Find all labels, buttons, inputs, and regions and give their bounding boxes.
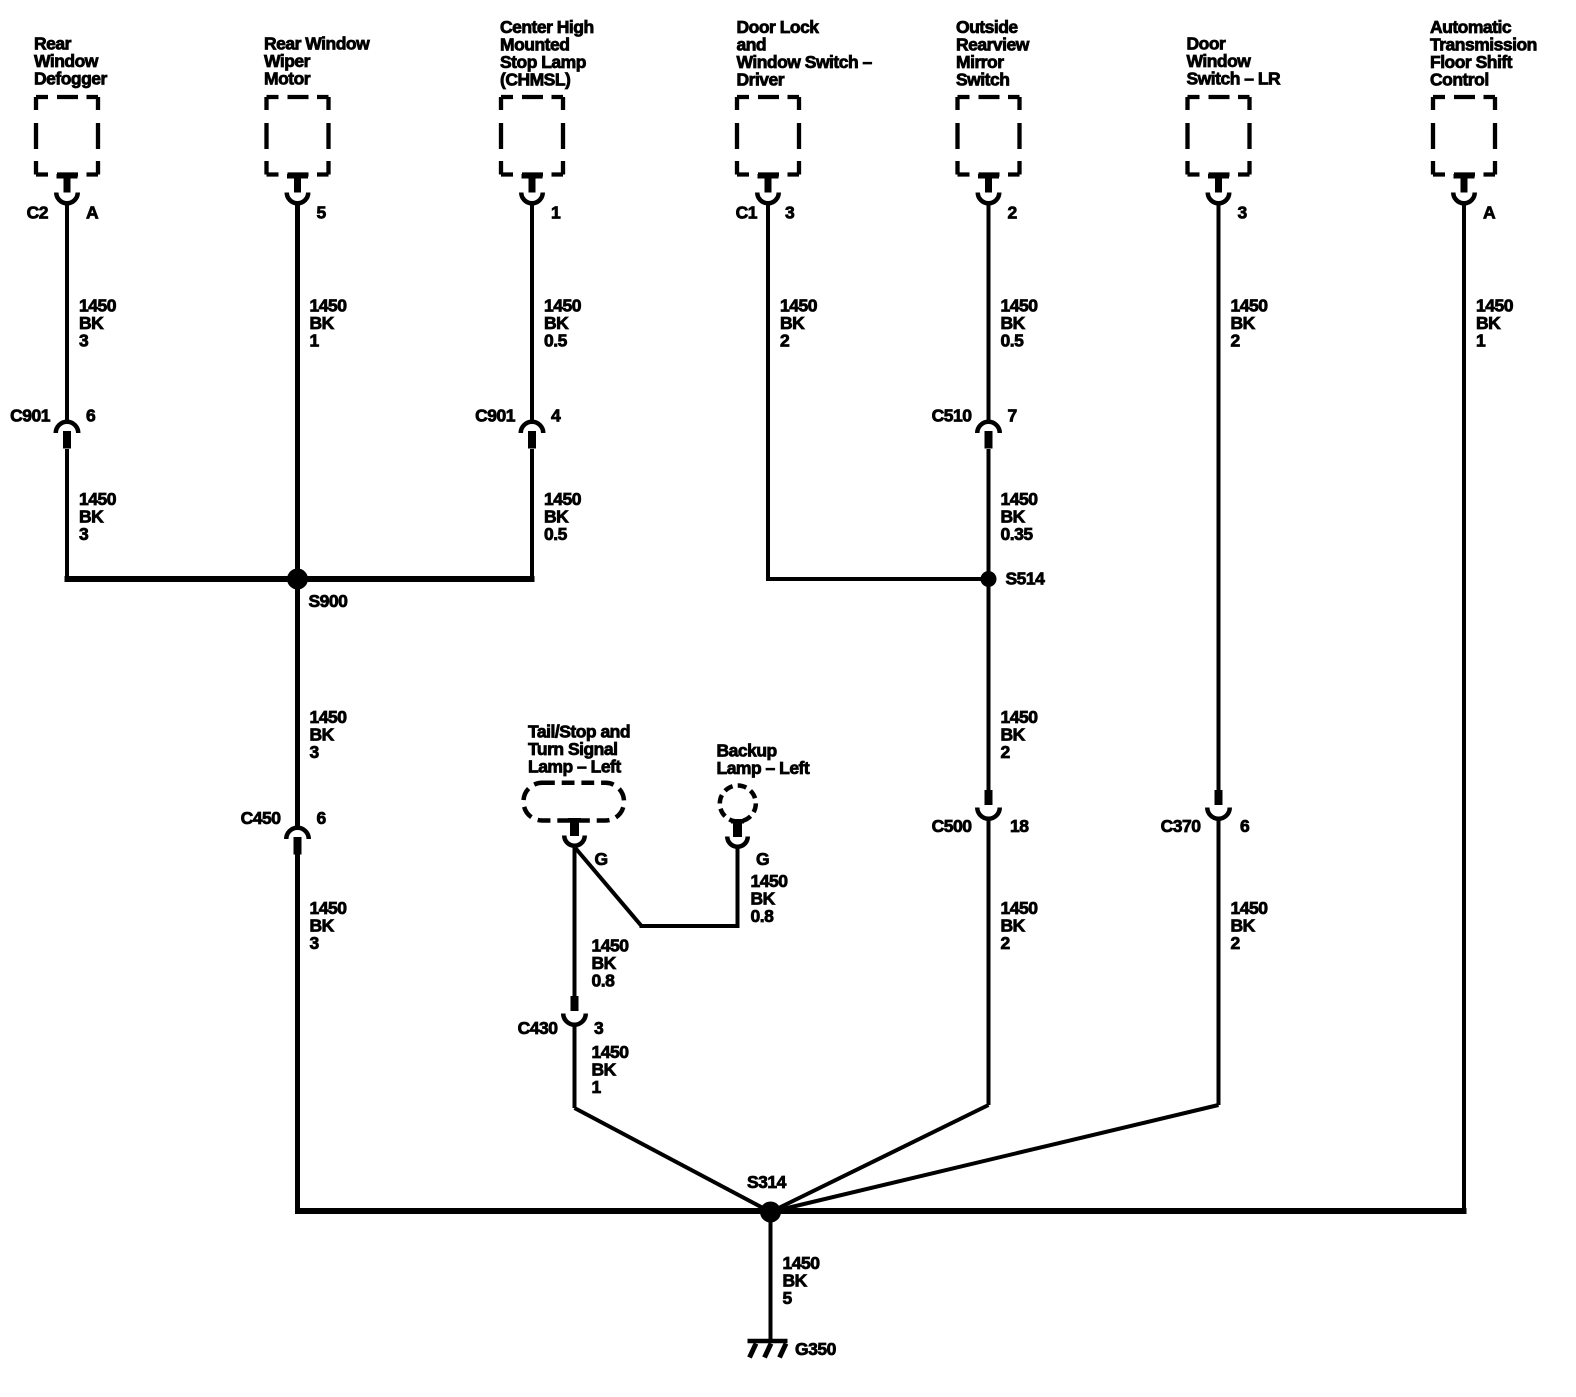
- svg-text:2: 2: [1231, 933, 1241, 953]
- svg-text:18: 18: [1010, 816, 1029, 836]
- svg-text:S314: S314: [747, 1172, 787, 1192]
- svg-text:Defogger: Defogger: [34, 69, 108, 89]
- svg-text:Switch – LR: Switch – LR: [1187, 69, 1282, 89]
- svg-text:1: 1: [310, 331, 320, 351]
- svg-text:6: 6: [86, 406, 96, 426]
- svg-text:2: 2: [1001, 742, 1011, 762]
- svg-text:C901: C901: [10, 406, 51, 426]
- svg-text:C2: C2: [27, 203, 49, 223]
- svg-text:S900: S900: [309, 591, 349, 611]
- svg-text:(CHMSL): (CHMSL): [500, 70, 570, 90]
- svg-text:C1: C1: [736, 203, 758, 223]
- svg-text:2: 2: [1008, 203, 1018, 223]
- svg-text:Motor: Motor: [264, 69, 311, 89]
- svg-text:3: 3: [1238, 203, 1248, 223]
- svg-text:0.5: 0.5: [1001, 331, 1025, 351]
- svg-text:0.5: 0.5: [544, 524, 568, 544]
- svg-text:Switch: Switch: [956, 70, 1009, 90]
- svg-text:A: A: [86, 203, 99, 223]
- svg-text:0.35: 0.35: [1001, 524, 1034, 544]
- svg-text:Lamp – Left: Lamp – Left: [717, 758, 810, 778]
- svg-text:1: 1: [592, 1077, 602, 1097]
- svg-text:G350: G350: [795, 1339, 837, 1359]
- svg-text:6: 6: [317, 808, 327, 828]
- svg-text:Driver: Driver: [737, 70, 785, 90]
- svg-text:4: 4: [551, 406, 561, 426]
- svg-text:3: 3: [79, 524, 89, 544]
- svg-text:2: 2: [1231, 331, 1241, 351]
- svg-text:0.5: 0.5: [544, 331, 568, 351]
- svg-text:A: A: [1483, 203, 1496, 223]
- svg-text:C450: C450: [241, 808, 282, 828]
- svg-text:1: 1: [1476, 331, 1486, 351]
- svg-text:G: G: [595, 849, 608, 869]
- svg-text:2: 2: [1001, 933, 1011, 953]
- svg-text:C430: C430: [518, 1018, 559, 1038]
- svg-text:7: 7: [1008, 406, 1017, 426]
- svg-text:C500: C500: [932, 816, 973, 836]
- svg-text:G: G: [756, 849, 769, 869]
- svg-text:3: 3: [310, 933, 320, 953]
- svg-text:1: 1: [551, 203, 561, 223]
- svg-text:6: 6: [1240, 816, 1250, 836]
- svg-text:3: 3: [594, 1018, 604, 1038]
- svg-text:2: 2: [780, 331, 790, 351]
- svg-text:3: 3: [785, 203, 795, 223]
- svg-text:3: 3: [310, 742, 320, 762]
- svg-text:Lamp – Left: Lamp – Left: [528, 757, 621, 777]
- svg-text:C901: C901: [475, 406, 516, 426]
- svg-text:0.8: 0.8: [751, 906, 775, 926]
- svg-text:S514: S514: [1006, 569, 1046, 589]
- svg-text:3: 3: [79, 331, 89, 351]
- svg-text:Control: Control: [1430, 70, 1489, 90]
- svg-text:0.8: 0.8: [592, 971, 616, 991]
- svg-text:5: 5: [317, 203, 327, 223]
- svg-text:C510: C510: [932, 406, 973, 426]
- svg-text:C370: C370: [1161, 816, 1202, 836]
- svg-text:5: 5: [783, 1288, 793, 1308]
